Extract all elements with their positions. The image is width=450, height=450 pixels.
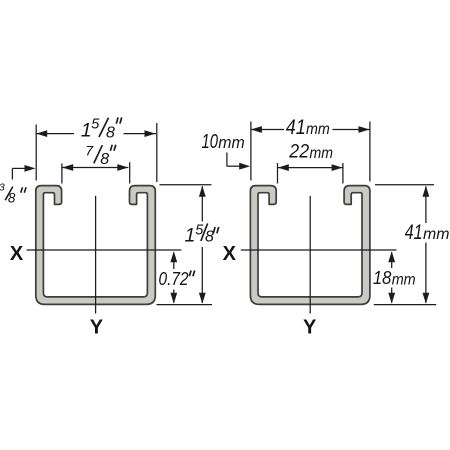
svg-text:3: 3	[0, 182, 5, 194]
arrowhead 7/8 right	[117, 164, 128, 171]
svg-text:mm: mm	[423, 226, 450, 243]
svg-text:10: 10	[202, 131, 219, 153]
arrowhead 41mm width right	[359, 126, 370, 133]
svg-text:Y: Y	[90, 317, 104, 339]
arrowhead 0.72 down	[170, 293, 177, 304]
dimension text 1 5/8 inch height	[185, 223, 215, 247]
svg-text:8: 8	[100, 151, 109, 168]
dimension line 1-5/8 height, lower segment	[201, 247, 203, 303]
svg-text:X: X	[10, 243, 24, 265]
right strut channel cross-section (metric)	[250, 186, 370, 305]
extension line left, 41mm width dim	[250, 122, 252, 181]
svg-text:Y: Y	[303, 317, 317, 339]
arrowhead 18mm down	[388, 293, 395, 304]
dimension text 1 5/8 inch width	[81, 116, 115, 141]
dimension line 1-5/8 height, upper segment	[201, 186, 203, 221]
arrowhead 1-5/8 height up	[199, 186, 206, 197]
extension line right, 7/8 slot dim	[129, 162, 131, 183]
arrowhead 41mm width left	[251, 126, 262, 133]
arrowhead 3/8 leader	[25, 165, 36, 172]
svg-text:1: 1	[185, 224, 196, 246]
extension line right, 22mm slot dim	[342, 163, 344, 184]
svg-text:41: 41	[405, 221, 423, 244]
10mm flange dim leader shaft	[227, 165, 242, 167]
dimension line 41mm height, upper segment	[425, 186, 427, 223]
svg-text:22: 22	[288, 142, 309, 163]
svg-text:mm: mm	[392, 271, 416, 288]
arrowhead 7/8 left	[62, 164, 73, 171]
3/8 flange dim leader drop	[11, 168, 13, 179]
svg-text:mm: mm	[306, 121, 330, 138]
dimension line 7/8 slot	[62, 167, 128, 169]
dimension line 41mm height, lower segment	[425, 243, 427, 303]
svg-text:7: 7	[85, 143, 94, 159]
bottom extension line, height dims (left figure)	[157, 304, 213, 306]
svg-text:mm: mm	[310, 145, 334, 162]
left strut channel cross-section (inch)	[36, 186, 156, 305]
dimension line 0.72, upper segment	[173, 253, 175, 270]
svg-text:18: 18	[373, 267, 392, 288]
arrowhead 22mm right	[332, 164, 343, 171]
dimension text 18mm	[373, 267, 416, 288]
extension line left, 1-5/8 width dim	[35, 125, 37, 181]
dimension text 7/8 inch slot	[85, 143, 109, 168]
arrowhead 1-5/8 width right	[145, 130, 156, 137]
arrowhead 22mm left	[278, 164, 289, 171]
extension line left, 22mm slot dim	[277, 163, 279, 184]
extension line right, 1-5/8 width dim	[156, 123, 158, 182]
svg-text:X: X	[223, 243, 237, 265]
Y centerline (right figure)	[309, 196, 311, 314]
dimension line 1-5/8 width, left segment	[36, 133, 74, 135]
svg-text:8: 8	[106, 125, 115, 142]
arrowhead 10mm leader	[239, 163, 250, 170]
dimension line 41mm width, right segment	[333, 129, 370, 131]
extension line right, 41mm width dim	[369, 122, 371, 182]
dimension line 41mm width, left segment	[251, 129, 284, 131]
X axis line (left figure)	[27, 249, 182, 251]
top extension line, 41mm height dim	[375, 184, 434, 186]
arrowhead 41mm height up	[423, 186, 430, 197]
top extension line, 1-5/8 height dim	[160, 184, 212, 186]
svg-text:5: 5	[91, 116, 100, 132]
X axis line (right figure)	[241, 249, 397, 251]
svg-text:mm: mm	[218, 134, 245, 152]
svg-text:41: 41	[286, 116, 306, 139]
dimension text 41mm width	[286, 116, 330, 139]
10mm flange dim leader drop	[226, 153, 228, 167]
dimension line 1-5/8 width, right segment	[124, 133, 157, 135]
dimension line 0.72, lower segment	[173, 290, 175, 303]
dimension text 41mm height	[405, 221, 450, 244]
dimension text 3/8 inch flange	[0, 182, 16, 206]
svg-text:0.72: 0.72	[159, 268, 190, 289]
svg-text:1: 1	[81, 120, 92, 142]
dimension text 10mm flange	[202, 131, 245, 153]
svg-text:8: 8	[205, 228, 214, 245]
extension line left, 7/8 slot dim	[61, 164, 63, 184]
3/8 flange dim leader shaft	[12, 167, 26, 169]
dimension line 22mm slot	[278, 167, 343, 169]
arrowhead 1-5/8 height down	[199, 293, 206, 304]
arrowhead 18mm up	[388, 251, 395, 262]
dimension line 18mm, lower segment	[391, 288, 393, 303]
Y centerline (left figure)	[95, 196, 97, 314]
arrowhead 1-5/8 width left	[36, 130, 47, 137]
bottom extension line, height dims (right figure)	[374, 304, 436, 306]
dimension text 22mm slot	[288, 142, 333, 163]
arrowhead 41mm height down	[423, 293, 430, 304]
arrowhead 0.72 up	[170, 251, 177, 262]
dimension line 18mm, upper segment	[391, 253, 393, 269]
